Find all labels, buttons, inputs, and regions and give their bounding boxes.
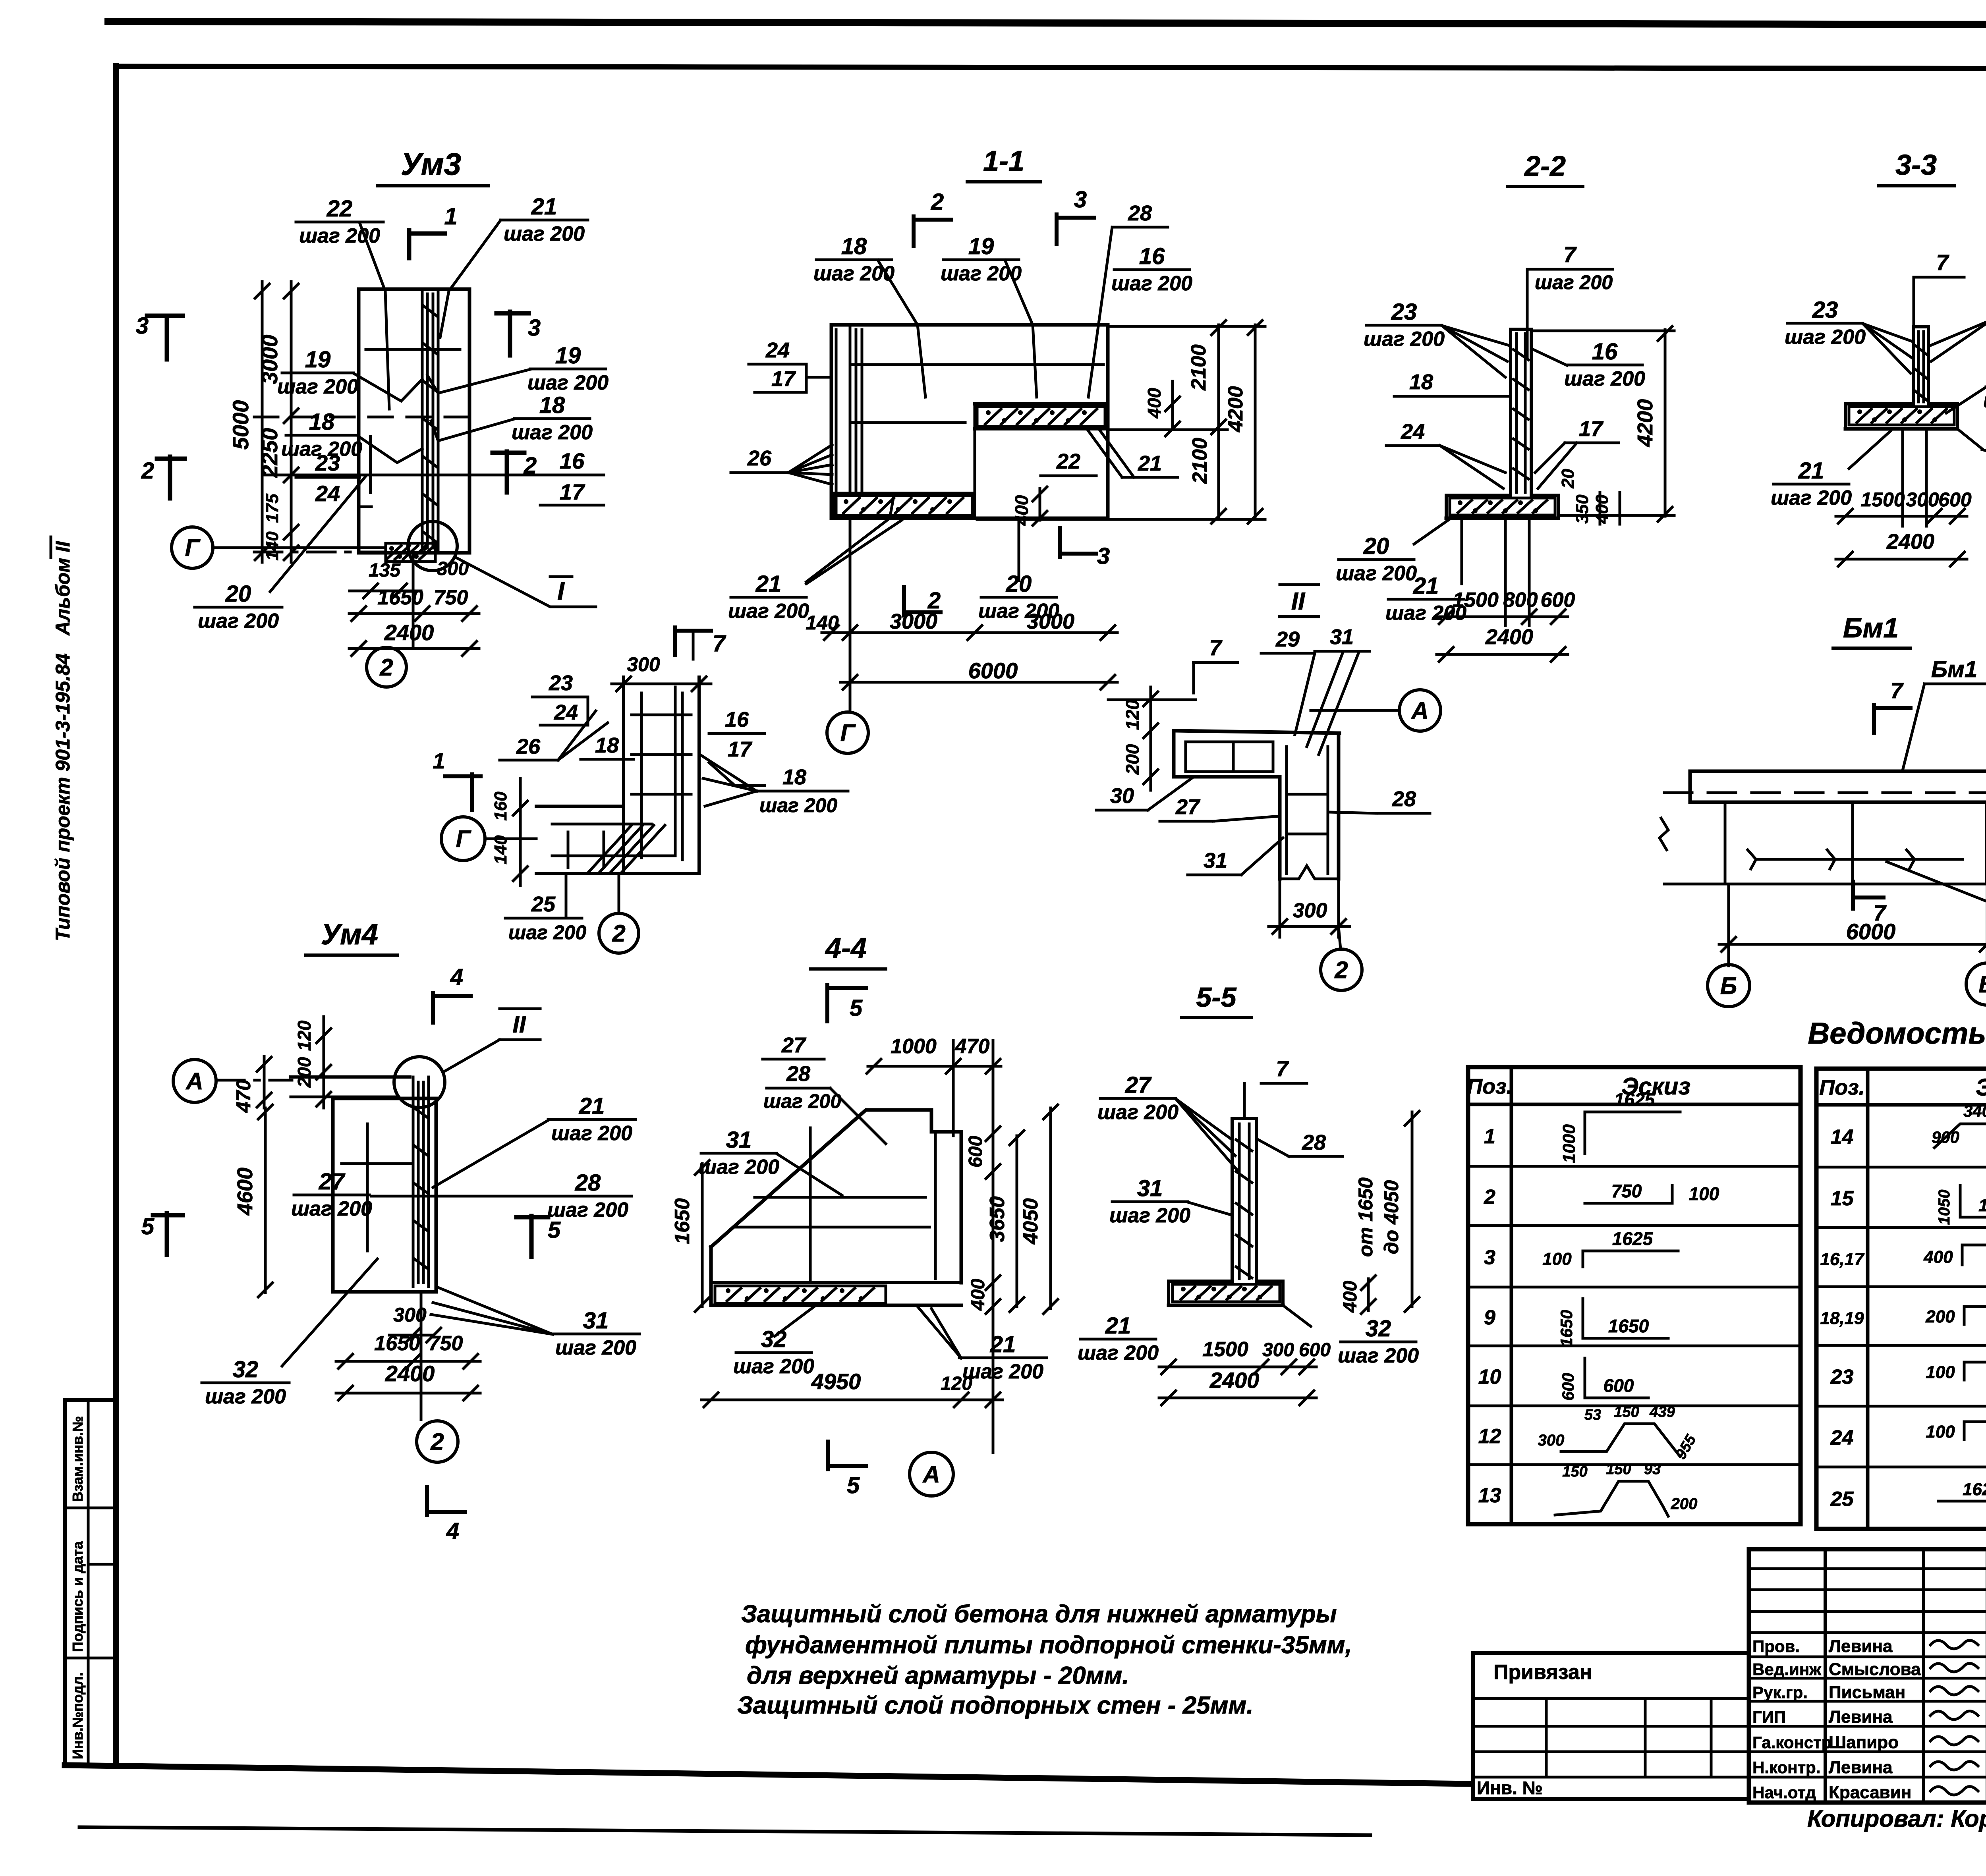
svg-text:II: II <box>512 1011 526 1038</box>
view 5-5: footing <box>1169 1280 1232 1283</box>
svg-text:7: 7 <box>1209 635 1223 660</box>
svg-text:шаг 200: шаг 200 <box>763 1090 841 1112</box>
svg-text:22: 22 <box>326 196 353 222</box>
svg-text:300: 300 <box>1293 899 1327 922</box>
view 1-1: left slab bottom <box>831 492 975 495</box>
svg-text:21: 21 <box>990 1332 1016 1357</box>
svg-text:3-3: 3-3 <box>1895 149 1937 181</box>
svg-text:Красавин: Красавин <box>1829 1783 1911 1802</box>
svg-text:Га.констр: Га.констр <box>1752 1733 1831 1752</box>
svg-text:28: 28 <box>1302 1131 1326 1154</box>
svg-text:24: 24 <box>765 338 790 362</box>
view Um4: section mark 5 left <box>153 1213 183 1218</box>
svg-text:17: 17 <box>728 737 753 761</box>
view 1-1: line down to grid circle Г <box>849 518 852 711</box>
view II: grid circle 2 <box>1339 926 1341 949</box>
svg-text:7: 7 <box>713 631 726 656</box>
view II: band bottom break <box>1280 866 1339 879</box>
svg-text:100: 100 <box>1689 1183 1719 1204</box>
svg-text:4: 4 <box>446 1518 459 1544</box>
svg-text:1625: 1625 <box>1612 1228 1654 1249</box>
svg-text:Ведомость стержней: Ведомость стержней <box>1808 1017 1986 1050</box>
svg-text:28: 28 <box>786 1062 810 1086</box>
svg-text:Письман: Письман <box>1829 1683 1905 1702</box>
svg-text:2400: 2400 <box>1886 530 1934 554</box>
table 2 row 25 sketch <box>1938 1500 1986 1503</box>
svg-text:шаг 200: шаг 200 <box>1109 1204 1190 1227</box>
svg-text:1625: 1625 <box>1614 1089 1656 1110</box>
svg-text:шаг 200: шаг 200 <box>1364 328 1445 351</box>
svg-text:шаг 200: шаг 200 <box>728 600 809 623</box>
svg-text:16: 16 <box>1139 243 1165 269</box>
svg-text:16: 16 <box>560 448 585 473</box>
view Um3: section mark 2 left small <box>157 457 185 461</box>
svg-text:160: 160 <box>491 791 510 821</box>
svg-text:400: 400 <box>968 1279 989 1311</box>
svg-text:Инв. №: Инв. № <box>1477 1778 1543 1798</box>
view Bm1-elev: inner rebar line with breaks <box>1756 858 1963 861</box>
view Um3: vertical bar 23/24 <box>369 437 372 492</box>
svg-text:21: 21 <box>1798 458 1824 484</box>
svg-text:140: 140 <box>263 531 282 561</box>
svg-text:200: 200 <box>1122 744 1143 775</box>
view Um3: section mark 1 top <box>407 230 411 258</box>
svg-text:2400: 2400 <box>1485 625 1533 649</box>
view 1-1: section mark 3 top <box>1055 214 1059 244</box>
svg-text:Альбом II: Альбом II <box>52 541 74 636</box>
svg-text:1: 1 <box>1484 1125 1495 1148</box>
svg-text:600: 600 <box>1603 1375 1634 1396</box>
svg-text:Привязан: Привязан <box>1493 1661 1592 1684</box>
svg-text:23: 23 <box>1391 299 1417 325</box>
view Um3: grid circle Г <box>172 527 213 568</box>
view Um3: section mark 3 left <box>496 311 529 316</box>
svg-text:Бм1: Бм1 <box>1931 656 1977 682</box>
svg-text:шаг 200: шаг 200 <box>1111 272 1192 295</box>
svg-text:2250: 2250 <box>257 428 282 478</box>
svg-text:21: 21 <box>1105 1313 1131 1339</box>
view Um3: left dim line 3000/2250/175/140 <box>290 282 293 562</box>
svg-text:23: 23 <box>1830 1366 1854 1389</box>
svg-text:1-1: 1-1 <box>983 145 1024 177</box>
view Um3: dash-dot line to footing <box>254 551 386 554</box>
svg-text:600: 600 <box>1299 1339 1331 1361</box>
svg-text:17: 17 <box>1579 417 1604 441</box>
view II: horizontal band inner rect <box>1186 742 1273 772</box>
titleblock: signature table columns <box>1824 1549 1827 1803</box>
svg-text:28: 28 <box>575 1170 601 1196</box>
view Um4: section mark 4 top <box>431 993 435 1023</box>
svg-text:шаг 200: шаг 200 <box>527 371 609 394</box>
svg-text:4-4: 4-4 <box>825 932 867 964</box>
view Bm1-elev: dashed axis line <box>1664 791 1986 794</box>
svg-text:24: 24 <box>315 481 340 506</box>
svg-text:Левина: Левина <box>1829 1637 1893 1656</box>
titleblock: signature rows <box>1749 1631 1986 1634</box>
svg-text:100: 100 <box>1926 1422 1955 1442</box>
svg-text:Инв.№подл.: Инв.№подл. <box>70 1672 86 1759</box>
border frame: left border <box>113 66 119 1766</box>
view I: section mark 1 left <box>445 774 481 778</box>
table 1 row 2 sketch: bar 750/100 <box>1585 1202 1672 1205</box>
svg-text:Рук.гр.: Рук.гр. <box>1752 1683 1808 1702</box>
svg-text:шаг 200: шаг 200 <box>508 921 586 944</box>
titleblock: top small rows <box>1749 1567 1986 1570</box>
view I: vertical wall band <box>622 677 625 874</box>
titleblock: signature table outer <box>1749 1549 1986 1803</box>
svg-text:5000: 5000 <box>228 400 253 450</box>
table 1 row 3 sketch: bar 100/1625 <box>1582 1251 1584 1267</box>
svg-text:Взам.инв.№: Взам.инв.№ <box>70 1416 86 1502</box>
svg-text:1050: 1050 <box>1978 1196 1986 1215</box>
svg-text:400: 400 <box>1923 1247 1953 1267</box>
svg-text:18: 18 <box>595 733 619 757</box>
svg-text:300: 300 <box>1262 1339 1294 1361</box>
svg-text:800: 800 <box>1503 589 1538 612</box>
svg-text:31: 31 <box>1137 1175 1163 1201</box>
view I: grid circle Г <box>441 817 485 861</box>
svg-text:6000: 6000 <box>968 658 1018 683</box>
svg-text:шаг 200: шаг 200 <box>1078 1341 1159 1365</box>
view Um4: inner horizontal line <box>342 1162 411 1165</box>
svg-text:150: 150 <box>1606 1461 1631 1478</box>
svg-text:3: 3 <box>1097 543 1110 569</box>
svg-text:А: А <box>1410 697 1428 724</box>
svg-text:Типовой проект 901-3-195.84: Типовой проект 901-3-195.84 <box>52 653 74 941</box>
svg-text:Защитный слой подпорных сте: Защитный слой подпорных стен - 25мм. <box>737 1692 1254 1719</box>
svg-text:4050: 4050 <box>1019 1198 1042 1245</box>
svg-text:1500: 1500 <box>1860 488 1905 511</box>
svg-text:150: 150 <box>1562 1463 1587 1480</box>
svg-text:53: 53 <box>1584 1407 1601 1423</box>
svg-text:27: 27 <box>319 1169 346 1195</box>
svg-text:шаг 200: шаг 200 <box>1564 367 1645 390</box>
view Bm1-elev: beam outline <box>1690 771 1986 802</box>
svg-text:19: 19 <box>968 234 994 259</box>
svg-text:350: 350 <box>1573 494 1592 524</box>
svg-text:120: 120 <box>1122 699 1143 730</box>
svg-text:3: 3 <box>1484 1246 1495 1269</box>
svg-text:21: 21 <box>579 1093 605 1119</box>
svg-text:шаг 200: шаг 200 <box>1338 1344 1419 1367</box>
svg-text:135: 135 <box>369 560 401 581</box>
svg-text:26: 26 <box>516 735 541 759</box>
svg-text:31: 31 <box>726 1127 752 1153</box>
view Bm1-elev: grid circles Б В <box>1727 884 1730 966</box>
view 1-1: top rebar line <box>850 363 1103 366</box>
view 1-1: section mark 2 bottom <box>902 587 906 616</box>
svg-text:5: 5 <box>847 1473 860 1498</box>
svg-text:4950: 4950 <box>811 1369 861 1394</box>
svg-text:Нач.отд: Нач.отд <box>1752 1783 1816 1802</box>
view Um4: wall reinforcement lines <box>412 1077 415 1287</box>
view Bm1-elev: section mark 7 bottom <box>1851 882 1855 909</box>
table 2 row 24 sketch <box>1963 1422 1966 1440</box>
svg-text:I: I <box>557 577 565 605</box>
svg-text:2: 2 <box>1484 1186 1495 1209</box>
svg-text:7: 7 <box>1936 250 1949 275</box>
svg-text:12: 12 <box>1478 1425 1501 1448</box>
svg-text:9: 9 <box>1484 1306 1495 1329</box>
view Um4: centreline to grid circle 2 <box>420 1292 423 1420</box>
svg-text:20: 20 <box>225 581 251 607</box>
svg-text:3: 3 <box>528 315 541 341</box>
svg-text:3000: 3000 <box>890 610 937 633</box>
svg-text:2-2: 2-2 <box>1524 151 1566 182</box>
svg-text:120: 120 <box>294 1020 315 1051</box>
svg-text:шаг 200: шаг 200 <box>759 794 837 816</box>
view Um3: wall plan outline <box>359 289 469 553</box>
svg-text:955: 955 <box>1673 1432 1700 1462</box>
svg-text:7: 7 <box>1563 242 1577 267</box>
svg-text:1: 1 <box>433 748 445 773</box>
svg-text:24: 24 <box>554 701 578 724</box>
view Um4: plan outline <box>333 1098 436 1292</box>
svg-text:Ум3: Ум3 <box>401 147 461 181</box>
table 2 grid <box>1816 1069 1986 1529</box>
svg-text:750: 750 <box>1611 1181 1642 1201</box>
svg-text:3650: 3650 <box>986 1196 1009 1242</box>
view 4-4: footing band <box>711 1281 961 1284</box>
svg-text:13: 13 <box>1478 1484 1501 1507</box>
svg-text:5-5: 5-5 <box>1196 982 1236 1013</box>
svg-text:2: 2 <box>1334 957 1348 983</box>
svg-text:1500: 1500 <box>1202 1338 1248 1361</box>
svg-text:16,17: 16,17 <box>1820 1250 1865 1269</box>
svg-text:340: 340 <box>1963 1102 1986 1120</box>
table 1 grid <box>1468 1067 1801 1524</box>
svg-text:3: 3 <box>1074 187 1087 212</box>
titleblock: bottom edge <box>1749 1801 1986 1805</box>
svg-text:шаг 200: шаг 200 <box>1785 326 1866 349</box>
view Um3: wall reinforcement lines <box>421 289 424 553</box>
svg-text:шаг 200: шаг 200 <box>551 1122 632 1145</box>
view Um3: footing detail with hatch <box>386 543 435 562</box>
view Um3: dashed level line <box>254 416 469 419</box>
view Um3: detail circle I <box>408 521 457 571</box>
view 3-3: stem hatch marks <box>1915 345 1926 354</box>
left stamp column box <box>65 1400 117 1766</box>
svg-text:470: 470 <box>955 1035 990 1058</box>
svg-text:600: 600 <box>1541 589 1575 612</box>
svg-text:для верхней арматуры - 20мм.: для верхней арматуры - 20мм. <box>747 1662 1129 1689</box>
svg-text:27: 27 <box>1125 1072 1152 1098</box>
svg-text:5: 5 <box>141 1214 155 1239</box>
svg-text:18: 18 <box>1409 370 1433 394</box>
view Bm1-elev: break marks left right <box>1660 818 1668 850</box>
svg-text:3: 3 <box>136 313 149 339</box>
titleblock: left привязан box <box>1473 1653 1749 1799</box>
svg-text:2: 2 <box>931 189 944 215</box>
svg-text:А: А <box>185 1068 203 1094</box>
svg-text:100: 100 <box>1542 1249 1572 1269</box>
svg-text:29: 29 <box>1275 627 1300 651</box>
table 2 row 18,19 sketch <box>1963 1307 1966 1324</box>
svg-text:2400: 2400 <box>385 1361 435 1386</box>
svg-text:2: 2 <box>430 1428 444 1455</box>
svg-text:Бм1: Бм1 <box>1843 612 1899 643</box>
svg-text:шаг 200: шаг 200 <box>1336 562 1417 585</box>
svg-text:шаг 200: шаг 200 <box>1771 486 1852 510</box>
svg-text:300: 300 <box>437 558 469 579</box>
svg-text:400: 400 <box>1592 494 1612 524</box>
view Bm1-elev: verticals below <box>1724 802 1727 884</box>
svg-text:В: В <box>1978 971 1986 998</box>
view 4-4: section mark 5 top <box>825 985 829 1021</box>
svg-text:А: А <box>922 1461 940 1488</box>
svg-text:19: 19 <box>305 347 331 372</box>
table 1 row 9 sketch: bar 1650/1650 <box>1582 1299 1584 1338</box>
svg-text:5: 5 <box>850 995 863 1021</box>
view I: horizontal wall band <box>536 805 624 808</box>
svg-text:ГИП: ГИП <box>1752 1708 1786 1726</box>
svg-text:150: 150 <box>1614 1404 1639 1421</box>
view Um3: section 2-2 cut line <box>262 474 599 477</box>
svg-text:300: 300 <box>1538 1432 1565 1449</box>
svg-text:16: 16 <box>725 708 749 731</box>
svg-text:шаг 200: шаг 200 <box>1097 1101 1178 1124</box>
svg-text:400: 400 <box>1011 495 1032 526</box>
svg-text:10: 10 <box>1478 1366 1501 1389</box>
svg-text:15: 15 <box>1831 1187 1854 1210</box>
view Um4: wall hatch marks <box>414 1108 427 1117</box>
svg-text:3000: 3000 <box>1027 610 1074 633</box>
svg-text:шаг 200: шаг 200 <box>555 1336 636 1359</box>
svg-text:6000: 6000 <box>1846 919 1896 944</box>
view I: stirrup marks <box>632 714 691 716</box>
svg-text:1000: 1000 <box>1559 1124 1579 1163</box>
svg-text:2: 2 <box>379 654 393 681</box>
view 1-1: section mark 2 top <box>912 216 916 246</box>
svg-text:Ум4: Ум4 <box>321 918 378 951</box>
svg-text:1650: 1650 <box>1557 1310 1576 1347</box>
view Um4: corner circle II-detail <box>394 1057 445 1108</box>
svg-text:от 1650: от 1650 <box>1354 1177 1377 1257</box>
view Bm1-elev: lower horizontal <box>1664 883 1986 886</box>
svg-text:Б: Б <box>1720 973 1737 999</box>
svg-text:Левина: Левина <box>1829 1758 1893 1777</box>
svg-text:600: 600 <box>1938 488 1972 511</box>
svg-text:2400: 2400 <box>1209 1368 1260 1393</box>
border frame: bottom border <box>65 1765 1470 1784</box>
table 1 row 13 sketch: bent bar <box>1555 1481 1668 1516</box>
svg-text:1650: 1650 <box>671 1198 694 1244</box>
view Um3: wall hatch marks <box>423 306 437 316</box>
svg-text:шаг 200: шаг 200 <box>1535 271 1613 293</box>
svg-text:шаг 200: шаг 200 <box>698 1156 779 1179</box>
svg-text:1650: 1650 <box>374 1332 420 1355</box>
table 1 row 1 sketch: bar 1000x1625 <box>1584 1112 1586 1154</box>
view Um3: leader to detail I label <box>457 558 596 607</box>
view 1-1: inner horizontal line mid <box>850 421 965 424</box>
svg-text:Вед.инж: Вед.инж <box>1752 1660 1822 1679</box>
svg-text:21: 21 <box>1413 573 1439 599</box>
view 4-4: section mark 5 bottom <box>826 1442 830 1469</box>
svg-text:27: 27 <box>1175 795 1201 819</box>
svg-text:Пров.: Пров. <box>1752 1637 1800 1656</box>
svg-text:17: 17 <box>560 479 585 504</box>
svg-text:19: 19 <box>555 343 581 369</box>
table 2 row 23 sketch <box>1963 1362 1966 1380</box>
svg-text:27: 27 <box>781 1033 807 1057</box>
svg-text:300: 300 <box>1906 488 1939 511</box>
view Um4: inner vertical line 27 <box>366 1124 369 1251</box>
svg-text:фундаментной плиты подпорной: фундаментной плиты подпорной стенки-35мм… <box>745 1631 1352 1659</box>
svg-text:шаг 200: шаг 200 <box>733 1355 814 1378</box>
view 3-3: footing <box>1845 402 1914 405</box>
titleblock: signatures scribbles <box>1930 1641 1978 1649</box>
svg-text:30: 30 <box>1110 784 1134 808</box>
svg-text:900: 900 <box>1932 1128 1959 1146</box>
svg-text:32: 32 <box>1366 1316 1391 1341</box>
svg-text:II: II <box>1291 588 1306 615</box>
border frame: inner top line <box>119 66 1986 69</box>
view 3-3: wall stem <box>1912 327 1915 404</box>
svg-text:18: 18 <box>841 234 867 259</box>
svg-text:шаг 200: шаг 200 <box>512 421 593 444</box>
svg-text:7: 7 <box>1276 1056 1289 1081</box>
svg-text:шаг 200: шаг 200 <box>198 610 279 633</box>
svg-text:7: 7 <box>1890 678 1904 703</box>
svg-text:28: 28 <box>1392 787 1416 811</box>
svg-text:200: 200 <box>1671 1495 1698 1513</box>
svg-text:21: 21 <box>1138 452 1162 475</box>
view 4-4: grid circle A bottom <box>910 1452 953 1496</box>
view Um4: section mark 4 bottom <box>425 1487 429 1515</box>
svg-text:Защитный слой бетона для ниж: Защитный слой бетона для нижней арматуры <box>741 1600 1337 1628</box>
svg-text:28: 28 <box>1128 201 1152 225</box>
view II: vertical band outer <box>1278 777 1282 879</box>
svg-text:4: 4 <box>450 964 463 990</box>
svg-text:31: 31 <box>1204 849 1227 872</box>
svg-text:до 4050: до 4050 <box>1380 1180 1403 1255</box>
view Um3: inner horizontal line <box>366 348 460 351</box>
svg-text:4200: 4200 <box>1224 386 1247 432</box>
svg-text:2: 2 <box>612 920 625 947</box>
view Bm1-elev: section mark 7 top <box>1872 705 1876 733</box>
svg-text:шаг 200: шаг 200 <box>504 222 585 245</box>
svg-text:шаг 200: шаг 200 <box>277 375 358 398</box>
svg-text:1650: 1650 <box>1608 1316 1649 1336</box>
table 1 row 12 sketch: bent bar <box>1561 1424 1680 1457</box>
svg-text:175: 175 <box>263 494 282 523</box>
svg-text:120: 120 <box>941 1373 972 1394</box>
svg-text:100: 100 <box>1926 1363 1955 1382</box>
svg-text:1: 1 <box>444 203 457 230</box>
svg-text:шаг 200: шаг 200 <box>1983 389 1986 412</box>
svg-text:200: 200 <box>1925 1307 1955 1326</box>
svg-text:шаг 200: шаг 200 <box>205 1385 286 1408</box>
view Um3: left dim line 5000 <box>261 282 264 562</box>
svg-text:2: 2 <box>141 458 154 484</box>
svg-text:750: 750 <box>429 1332 463 1355</box>
svg-text:600: 600 <box>965 1136 986 1168</box>
bottom margin line <box>79 1827 1370 1835</box>
svg-text:18,19: 18,19 <box>1820 1309 1864 1328</box>
svg-text:25: 25 <box>1830 1488 1854 1511</box>
view 4-4: wall outline with slope <box>711 1110 961 1283</box>
svg-text:Левина: Левина <box>1829 1707 1893 1727</box>
svg-text:Н.контр.: Н.контр. <box>1752 1758 1820 1777</box>
view Um4: top corner band <box>291 1075 410 1079</box>
svg-text:18: 18 <box>539 392 565 418</box>
view Um4: grid circle A <box>173 1060 216 1102</box>
svg-text:400: 400 <box>1340 1281 1361 1313</box>
view Um3: centreline down to grid circle 2 <box>412 553 415 647</box>
table 2 row 16,17 sketch <box>1961 1245 1964 1265</box>
table 2 row 15 sketch <box>1959 1185 1962 1217</box>
svg-text:20: 20 <box>1558 469 1578 488</box>
